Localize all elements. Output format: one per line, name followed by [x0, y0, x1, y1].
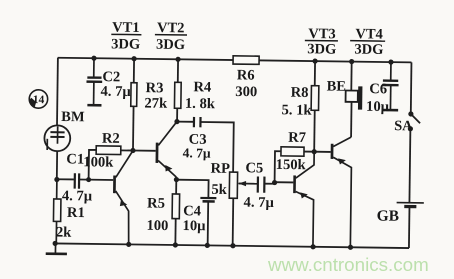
svg-text:R1: R1 — [67, 205, 85, 221]
wire node E to VT3 base — [275, 181, 294, 183]
transistor VT2 — [155, 121, 177, 177]
resistor R2 — [96, 146, 121, 155]
svg-text:150k: 150k — [276, 157, 307, 173]
node F dot (R7/R8/VT3 collector/VT4 base) — [312, 149, 317, 154]
label R1 value — [56, 205, 85, 241]
ground rail dot C4 — [205, 243, 210, 248]
label C2 value — [100, 69, 131, 100]
label R5 value — [146, 196, 168, 235]
rail dot BE — [349, 59, 354, 64]
label C4 value — [182, 203, 206, 234]
wire node C to C3 — [177, 121, 193, 123]
label R6 value — [235, 67, 257, 100]
wire C1 to VT1 base — [80, 179, 114, 181]
label C6 value — [366, 81, 390, 115]
wire mic bottom to node A — [56, 151, 58, 179]
svg-text:4. 7μ: 4. 7μ — [183, 145, 211, 160]
capacitor C2 — [86, 58, 102, 105]
ground rail dot VT1 emitter — [126, 242, 131, 247]
label VT3 3DG — [305, 26, 339, 58]
wire R8 bottom to node F — [313, 110, 316, 151]
wire R2 right to node B — [121, 149, 133, 151]
wire rail to BE top — [350, 62, 352, 91]
wire bottom ground rail — [55, 243, 409, 248]
resistor R4 — [174, 82, 181, 108]
svg-text:3DG: 3DG — [354, 42, 383, 58]
switch SA — [408, 111, 420, 131]
ground rail dot VT4 emitter — [348, 245, 353, 250]
rail dot C2 — [91, 56, 96, 61]
wire node A to C1 — [57, 178, 74, 180]
label VT1 3DG — [111, 20, 142, 53]
rail dot R3 — [131, 56, 136, 61]
wire GB bottom to ground rail corner — [408, 207, 411, 248]
svg-text:R5: R5 — [147, 196, 165, 212]
node D dot (VT2 emitter) — [174, 177, 179, 182]
svg-text:3DG: 3DG — [111, 36, 140, 52]
svg-text:4. 7μ: 4. 7μ — [100, 84, 131, 100]
wire rail to R4 top — [177, 59, 179, 82]
svg-text:4. 7μ: 4. 7μ — [244, 195, 275, 211]
wire RP bottom to ground rail — [232, 198, 235, 245]
svg-text:R6: R6 — [237, 67, 255, 83]
resistor R6 — [233, 56, 259, 65]
wire top supply rail — [58, 58, 412, 63]
capacitor C1 — [75, 173, 80, 188]
wire C3 right to RP top — [201, 122, 234, 172]
svg-text:SA: SA — [394, 118, 413, 134]
capacitor C3 — [194, 117, 201, 127]
rail dot R4 — [175, 57, 180, 62]
wire node D to C4 top — [176, 180, 208, 198]
svg-text:C1: C1 — [66, 151, 84, 167]
label C5 value — [244, 160, 276, 211]
wire left column mic top — [56, 58, 59, 126]
svg-text:14: 14 — [33, 94, 45, 106]
wire riser node A row to R2 left — [89, 150, 97, 180]
wire node B to VT2 base — [133, 150, 156, 152]
wire node D to R5 — [175, 180, 177, 194]
wire BE bottom to VT4 collector — [350, 102, 352, 137]
node A dot (mic/C1/R1) — [54, 177, 59, 182]
node C dot (R4/C3/VT2 collector) — [174, 119, 179, 124]
wire node E riser to R7 left — [275, 151, 281, 182]
transistor VT3 — [292, 151, 314, 246]
wire R4 bottom to node C — [176, 108, 178, 121]
resistor R7 — [281, 147, 304, 156]
svg-text:C6: C6 — [369, 81, 387, 97]
wire R3 top to rail — [133, 59, 135, 83]
svg-text:10μ: 10μ — [366, 99, 390, 115]
label R7 value — [276, 130, 307, 174]
label RP value — [210, 161, 230, 198]
node E dot (C5/R7/VT3 base) — [272, 180, 277, 185]
svg-text:1. 8k: 1. 8k — [185, 96, 216, 112]
potentiometer RP — [229, 172, 246, 198]
rail dot C6 — [388, 59, 393, 64]
label VT2 3DG — [155, 20, 188, 53]
svg-text:GB: GB — [377, 208, 400, 225]
svg-text:100k: 100k — [83, 154, 114, 170]
svg-text:3DG: 3DG — [156, 37, 185, 53]
svg-text:R4: R4 — [193, 79, 212, 95]
svg-text:www.cntronics.com: www.cntronics.com — [267, 254, 429, 275]
ground — [46, 243, 67, 254]
wire R7 right to node F — [304, 151, 314, 153]
transistor VT1 — [112, 150, 133, 244]
wire C4 bottom to ground rail — [207, 202, 210, 246]
node B dot (VT1 collector) — [130, 148, 135, 153]
wire node B up to R3 — [132, 106, 135, 150]
resistor R1 — [53, 180, 61, 244]
microphone BM — [44, 125, 70, 151]
label R8 value — [281, 85, 312, 119]
svg-text:R2: R2 — [102, 131, 120, 147]
earphone BE — [345, 86, 362, 109]
wire node F to VT4 base — [314, 151, 330, 153]
wire R5 bottom to ground rail — [174, 219, 176, 245]
node dot R2 riser — [86, 177, 91, 182]
svg-text:VT1: VT1 — [112, 20, 140, 36]
svg-text:3DG: 3DG — [307, 41, 336, 57]
wire rail corner to SA top — [410, 62, 413, 113]
svg-text:R3: R3 — [145, 80, 163, 96]
ground rail dot R1 — [53, 241, 58, 246]
svg-text:2k: 2k — [56, 225, 73, 241]
ground rail dot R5 — [173, 242, 178, 247]
wire rail to R8 top — [314, 61, 316, 86]
label C3 value — [183, 132, 212, 161]
label R3 value — [144, 80, 168, 112]
svg-text:10μ: 10μ — [182, 218, 206, 234]
resistor R5 — [172, 194, 180, 219]
capacitor C4 — [200, 198, 216, 202]
transistor VT4 — [329, 137, 351, 247]
svg-text:27k: 27k — [144, 95, 168, 111]
resistor R3 — [131, 83, 137, 107]
svg-text:5k: 5k — [211, 182, 228, 198]
battery GB — [397, 203, 424, 207]
svg-text:5. 1k: 5. 1k — [281, 102, 312, 118]
ground rail dot VT3 emitter — [311, 244, 316, 249]
svg-text:BM: BM — [61, 109, 85, 125]
svg-text:R7: R7 — [288, 130, 306, 146]
svg-text:R8: R8 — [291, 85, 309, 101]
wire C5 right to node E — [265, 183, 274, 185]
svg-text:4. 7μ: 4. 7μ — [62, 188, 93, 204]
circled label 14 — [29, 90, 48, 109]
label R4 value — [185, 79, 216, 112]
rail dot R8 — [312, 58, 317, 63]
label C1 value — [62, 151, 94, 204]
label R2 value — [83, 130, 120, 170]
svg-text:RP: RP — [210, 161, 230, 177]
wire RP wiper to C5 — [239, 183, 257, 185]
capacitor C6 — [382, 62, 399, 110]
resistor R8 — [311, 86, 319, 111]
svg-text:300: 300 — [235, 84, 257, 100]
wire VT2 emitter node D — [175, 177, 177, 180]
ground rail dot RP — [230, 243, 235, 248]
svg-text:BE: BE — [327, 78, 347, 94]
capacitor C5 — [258, 176, 265, 192]
svg-text:C5: C5 — [245, 160, 263, 176]
svg-text:100: 100 — [146, 218, 168, 234]
wire SA bottom to GB — [408, 129, 411, 203]
label VT4 3DG — [350, 26, 385, 58]
